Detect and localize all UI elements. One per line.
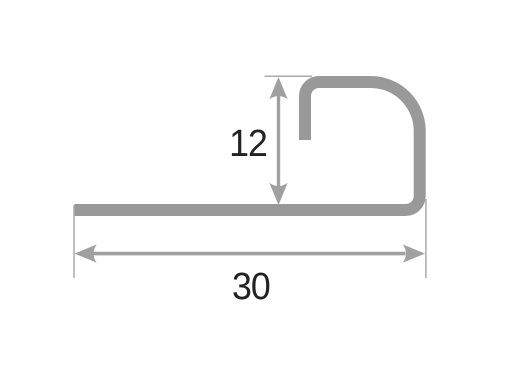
svg-text:30: 30 bbox=[232, 265, 270, 307]
arrowhead left bbox=[75, 244, 97, 262]
dimension line 30 (horizontal) bbox=[94, 252, 406, 256]
extension line right (for 30) bbox=[425, 199, 427, 278]
arrowhead up bbox=[269, 77, 287, 99]
profile outline (tile trim cross-section) bbox=[75, 82, 420, 210]
dimension line 12 (vertical) bbox=[277, 94, 280, 188]
arrowhead right bbox=[403, 244, 425, 262]
arrowhead down bbox=[269, 183, 287, 205]
extension line left (for 30) bbox=[73, 205, 75, 278]
extension line top (for 12) bbox=[265, 75, 313, 77]
svg-text:12: 12 bbox=[229, 122, 267, 164]
